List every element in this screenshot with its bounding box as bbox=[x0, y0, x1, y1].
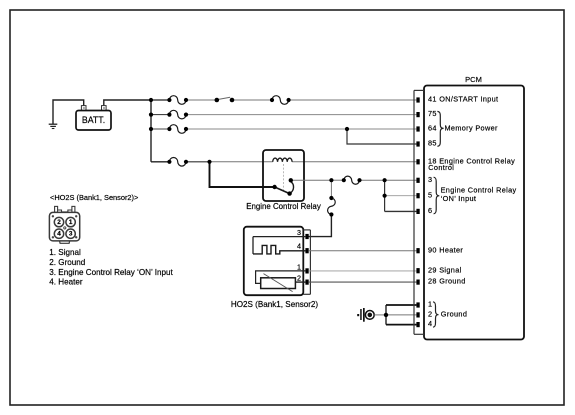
svg-text:41 ON/START Input: 41 ON/START Input bbox=[428, 95, 498, 104]
svg-text:1: 1 bbox=[69, 219, 73, 226]
svg-text:4: 4 bbox=[297, 242, 301, 251]
svg-text:2: 2 bbox=[428, 310, 432, 319]
svg-text:28 Ground: 28 Ground bbox=[428, 277, 466, 286]
svg-text:29 Signal: 29 Signal bbox=[428, 266, 462, 275]
svg-text:3: 3 bbox=[297, 228, 301, 237]
svg-text:Ground: Ground bbox=[441, 309, 467, 318]
svg-text:2. Ground: 2. Ground bbox=[49, 258, 85, 267]
svg-text:PCM: PCM bbox=[465, 75, 482, 84]
svg-text:HO2S (Bank1, Sensor2): HO2S (Bank1, Sensor2) bbox=[231, 300, 319, 309]
svg-text:2: 2 bbox=[57, 219, 61, 226]
svg-text:Engine Control Relay: Engine Control Relay bbox=[246, 202, 321, 211]
svg-text:BATT.: BATT. bbox=[82, 115, 105, 125]
svg-text:Memory Power: Memory Power bbox=[445, 124, 498, 133]
svg-text:4: 4 bbox=[428, 319, 432, 328]
svg-text:1: 1 bbox=[297, 263, 301, 272]
svg-text:6: 6 bbox=[428, 206, 432, 215]
svg-text:64: 64 bbox=[428, 124, 437, 133]
svg-text:4: 4 bbox=[57, 230, 61, 237]
svg-text:1. Signal: 1. Signal bbox=[49, 248, 81, 257]
svg-text:75: 75 bbox=[428, 109, 437, 118]
svg-text:3: 3 bbox=[428, 175, 432, 184]
svg-text:85: 85 bbox=[428, 139, 437, 148]
svg-text:<HO2S (Bank1, Sensor2)>: <HO2S (Bank1, Sensor2)> bbox=[50, 193, 138, 202]
svg-text:90 Heater: 90 Heater bbox=[428, 245, 463, 254]
svg-text:2: 2 bbox=[297, 274, 301, 283]
svg-text:3. Engine Control Relay ‘ON’ I: 3. Engine Control Relay ‘ON’ Input bbox=[49, 268, 173, 277]
svg-text:3: 3 bbox=[69, 230, 73, 237]
svg-text:‘ON’ Input: ‘ON’ Input bbox=[441, 194, 477, 203]
svg-text:4. Heater: 4. Heater bbox=[49, 278, 83, 287]
svg-text:Control: Control bbox=[428, 163, 454, 172]
svg-text:1: 1 bbox=[428, 300, 432, 309]
svg-text:5: 5 bbox=[428, 190, 432, 199]
